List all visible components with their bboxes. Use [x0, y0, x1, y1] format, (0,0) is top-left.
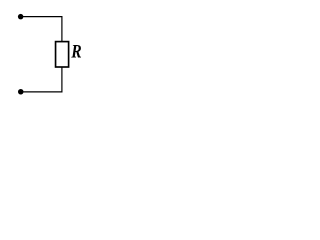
- node terminal top: [18, 14, 24, 20]
- wire top-right vertical: [61, 16, 63, 42]
- resistor R: [56, 42, 69, 67]
- node terminal bottom: [18, 89, 24, 95]
- wire bottom horizontal: [21, 91, 62, 93]
- svg-text:R: R: [70, 41, 81, 62]
- wire top horizontal: [21, 16, 62, 18]
- wire bottom vertical: [61, 67, 63, 93]
